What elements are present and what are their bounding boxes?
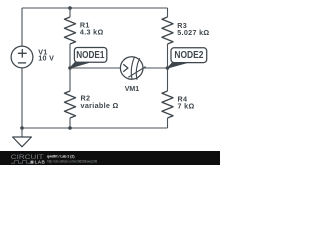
label R3 5.027 kΩ [177,21,209,37]
label R1 4.3 kΩ [80,21,104,37]
watermark logo CIRCUIT LAB [11,154,46,165]
wire: R4 bottom lead to bottom rail corner [167,118,169,128]
watermark bar [0,151,220,165]
wire: NODE1 to voltmeter VM1 [70,67,120,69]
wire: R2 top lead from NODE1 junction [69,68,71,91]
voltmeter VM1 [120,57,145,80]
resistor R4 [162,91,173,118]
wire: top horizontal from left rail to R3 branch [22,7,168,9]
svg-text:variable Ω: variable Ω [81,101,119,110]
node flag NODE1 [70,48,107,69]
resistor R3 [162,17,173,44]
svg-text:NODE2: NODE2 [174,50,203,61]
junction: R2 bottom node [68,126,72,130]
node flag NODE2 [168,48,207,68]
wire: bottom horizontal from ground node to R4 branch [22,127,168,129]
resistor R1 [64,17,75,44]
wire: left rail lower (V1 bottom to ground node) [21,68,23,128]
label R2 variable Ω [81,94,119,110]
svg-text:4.3 kΩ: 4.3 kΩ [80,28,104,37]
wire: voltmeter VM1 to NODE2 junction [143,67,168,69]
wire: R1 bottom lead to NODE1 junction [69,44,71,68]
voltage source V1 [11,46,33,68]
wire: R3 bottom lead to NODE2 junction [167,44,169,68]
label R4 7 kΩ [178,94,195,110]
svg-text:7 kΩ: 7 kΩ [178,101,195,110]
junction: top node at R1 branch [68,6,72,10]
wire: R2 bottom lead to bottom rail [69,118,71,128]
wire: left rail upper (top corner down to V1 top) [21,8,23,46]
resistor R2 [64,91,75,118]
wire: R1 top lead [69,8,71,17]
svg-text:VM1: VM1 [125,86,140,93]
junction: NODE1 [68,66,72,70]
wire: R4 top lead from NODE2 junction [167,68,169,91]
wire: R3 top lead from top wire corner [167,8,169,17]
svg-text:NODE1: NODE1 [76,50,105,61]
ground [13,128,32,147]
label V1 10 V [38,47,54,62]
svg-text:5.027 kΩ: 5.027 kΩ [177,28,209,37]
junction: NODE2 [166,66,170,70]
svg-text:http://circuitlab.com/c/3626ks: http://circuitlab.com/c/3626kswq236 [47,158,98,163]
svg-text:LAB: LAB [35,160,46,165]
svg-text:10 V: 10 V [38,54,54,63]
junction: ground node [20,126,24,130]
